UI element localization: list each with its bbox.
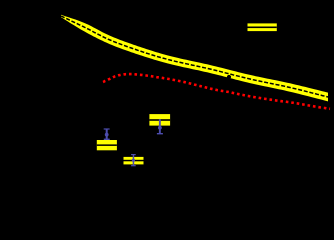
data point 2: stat error bar (blue) [131, 154, 136, 166]
marker dot on band [227, 75, 231, 79]
P2 bottom cap [131, 165, 136, 166]
dashed central theory curve (black, on band) [61, 16, 328, 97]
data point 3: syst box (yellow) [149, 114, 170, 126]
P1 vertical line [106, 129, 108, 141]
P1 top cap [104, 128, 110, 129]
legend center line [248, 27, 277, 29]
P1 marker [105, 133, 109, 137]
data point 3: stat error bar (blue) [157, 119, 163, 134]
P2 marker [132, 159, 135, 162]
legend band swatch [248, 23, 277, 31]
data point 2: center line [124, 160, 144, 162]
P2 vertical line [133, 154, 135, 166]
P2 top cap [131, 154, 136, 155]
theory uncertainty band (yellow) [61, 15, 328, 102]
P3 vertical line [159, 119, 161, 133]
data point 3: center line [149, 119, 170, 121]
P3 bottom cap [157, 133, 163, 134]
P1 bottom cap [104, 139, 110, 140]
data point 1: syst box (yellow) [97, 140, 117, 150]
data point 2: syst box (yellow) [124, 157, 144, 165]
P3 marker [158, 126, 162, 130]
red dotted curve [103, 74, 330, 109]
data point 1: center line [97, 144, 117, 146]
data point 1: stat error bar (blue) [104, 128, 110, 140]
